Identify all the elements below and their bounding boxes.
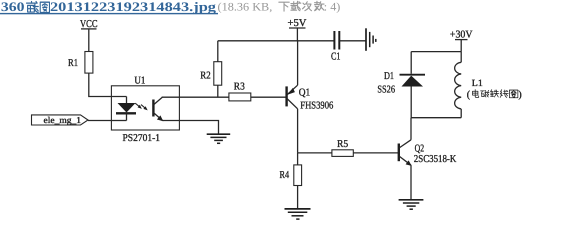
- power VCC: [80, 19, 98, 51]
- resistor R2: [200, 41, 221, 97]
- svg-text:L1: L1: [472, 79, 483, 89]
- wire U1 emitter to ground: [179, 121, 218, 134]
- capacitor C1: [331, 31, 341, 63]
- svg-text:R5: R5: [337, 139, 348, 150]
- svg-text:R1: R1: [68, 58, 78, 69]
- wire Q1 emitter to +5V: [297, 41, 299, 85]
- port flag ele_mg_1: [32, 115, 89, 125]
- svg-text:ele_mg_1: ele_mg_1: [44, 115, 82, 125]
- svg-text:R2: R2: [200, 71, 210, 82]
- svg-text:: 4): : 4): [324, 1, 341, 13]
- power +30V: [450, 30, 473, 52]
- svg-text:(: (: [467, 90, 471, 101]
- resistor R3: [229, 82, 251, 101]
- wire R5 to Q2 base: [353, 152, 398, 154]
- svg-text:20131223192314843.jpg: 20131223192314843.jpg: [50, 0, 217, 14]
- U1 phototransistor: [153, 97, 179, 121]
- wire Q1 collector down to node: [297, 109, 299, 153]
- ground at U1 emitter: [207, 134, 231, 143]
- wire R3 to Q1 base: [251, 96, 287, 98]
- gray attachment info (18.36 KB, 下载次数: 4): [218, 1, 341, 13]
- svg-text:): ): [518, 90, 521, 101]
- L1 note (电磁铁线圈): [467, 90, 522, 101]
- svg-text:FHS3906: FHS3906: [300, 101, 333, 112]
- wire flag to U1 pin2: [88, 120, 111, 122]
- +5V rail: [218, 18, 334, 41]
- wire Q2 collector up to rail: [410, 118, 412, 140]
- wire Q2 emitter to ground: [410, 165, 412, 199]
- ground below Q2: [399, 200, 424, 209]
- ground below R4: [285, 209, 311, 219]
- svg-text:360: 360: [1, 0, 25, 14]
- transistor Q1: [287, 85, 334, 111]
- svg-text:C1: C1: [331, 52, 341, 63]
- top rail D1/L1: [411, 51, 461, 53]
- svg-text:(18.36 KB,: (18.36 KB,: [218, 1, 273, 13]
- svg-text:Q1: Q1: [299, 87, 311, 98]
- U1 light arrows: [135, 103, 148, 110]
- bottom rail D1/L1 to Q2 collector: [411, 117, 461, 119]
- wire U1 collector to R3: [162, 96, 229, 98]
- wire C1 to ground: [339, 40, 366, 42]
- U1 LED: [111, 97, 136, 121]
- resistor R1: [68, 52, 93, 74]
- svg-text:Q2: Q2: [415, 143, 425, 154]
- link text 360截图20131223192314843.jpg: [0, 0, 218, 14]
- svg-text:SS26: SS26: [377, 85, 395, 96]
- wire R1 to U1 pin1: [89, 73, 127, 96]
- resistor R4: [280, 153, 302, 209]
- node wire to R5: [298, 152, 332, 154]
- diode D1: [377, 52, 425, 118]
- inductor L1 (coil): [455, 52, 483, 118]
- svg-text:R4: R4: [280, 170, 290, 181]
- transistor Q2: [399, 140, 457, 166]
- resistor R5: [332, 139, 353, 156]
- svg-text:U1: U1: [134, 75, 145, 86]
- svg-text:2SC3518-K: 2SC3518-K: [414, 154, 457, 165]
- svg-text:PS2701-1: PS2701-1: [123, 133, 161, 144]
- svg-text:R3: R3: [234, 82, 245, 93]
- optocoupler U1 box: [111, 75, 179, 144]
- svg-text:D1: D1: [384, 71, 394, 82]
- ground right of C1 (rotated): [366, 28, 376, 51]
